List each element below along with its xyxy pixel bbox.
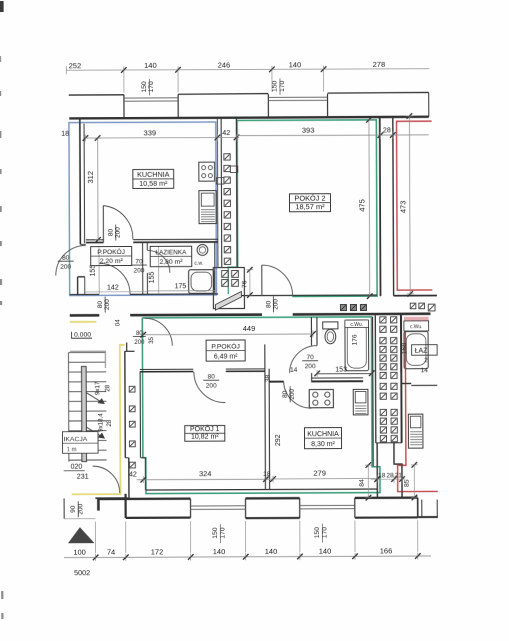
svg-text:339: 339 <box>144 128 157 137</box>
svg-text:200: 200 <box>305 363 316 370</box>
svg-text:2: 2 <box>424 357 428 364</box>
svg-text:166: 166 <box>380 546 393 555</box>
svg-text:200: 200 <box>134 267 145 274</box>
svg-text:9x17: 9x17 <box>94 381 101 395</box>
svg-text:14: 14 <box>290 367 298 374</box>
svg-text:c.Wu.: c.Wu. <box>410 324 423 330</box>
svg-text:42: 42 <box>129 472 137 479</box>
svg-text:175: 175 <box>175 283 187 290</box>
svg-text:153: 153 <box>335 367 347 374</box>
svg-text:21: 21 <box>395 472 403 479</box>
svg-text:231: 231 <box>77 471 89 480</box>
svg-text:200: 200 <box>134 340 145 346</box>
svg-text:278: 278 <box>373 60 386 69</box>
svg-text:155: 155 <box>90 265 97 277</box>
svg-text:150: 150 <box>271 80 278 92</box>
svg-text:ŁAZIENKA: ŁAZIENKA <box>155 249 187 256</box>
svg-text:10,58 m²: 10,58 m² <box>139 179 168 188</box>
svg-text:P.POKÓJ: P.POKÓJ <box>97 247 125 256</box>
svg-text:449: 449 <box>243 324 256 333</box>
svg-text:04: 04 <box>115 319 121 326</box>
svg-text:140: 140 <box>289 60 302 69</box>
svg-text:140: 140 <box>265 547 278 556</box>
svg-text:312: 312 <box>86 171 95 184</box>
svg-text:5002: 5002 <box>74 568 90 577</box>
svg-text:9x18,4: 9x18,4 <box>97 413 104 432</box>
svg-text:85: 85 <box>404 479 411 487</box>
svg-text:80: 80 <box>62 255 70 262</box>
svg-text:KUCHNIA: KUCHNIA <box>137 170 170 179</box>
svg-text:28: 28 <box>386 472 394 479</box>
svg-text:2,20 m²: 2,20 m² <box>100 258 124 265</box>
svg-text:200: 200 <box>115 227 122 238</box>
svg-text:473: 473 <box>398 201 407 214</box>
svg-text:0.000: 0.000 <box>74 331 91 338</box>
svg-text:200: 200 <box>206 383 217 390</box>
svg-text:6,49 m²: 6,49 m² <box>214 353 238 360</box>
svg-text:74: 74 <box>107 548 115 557</box>
svg-text:18: 18 <box>378 472 386 479</box>
svg-text:200: 200 <box>77 503 84 514</box>
svg-text:18: 18 <box>263 471 271 478</box>
svg-text:393: 393 <box>302 126 315 135</box>
svg-text:80: 80 <box>136 331 143 337</box>
svg-text:POKÓJ 1: POKÓJ 1 <box>190 424 220 433</box>
svg-text:10,82 m²: 10,82 m² <box>191 433 219 440</box>
svg-text:8,30 m²: 8,30 m² <box>311 441 335 448</box>
svg-text:1 m: 1 m <box>67 447 77 453</box>
svg-text:200: 200 <box>60 264 71 271</box>
svg-text:172: 172 <box>151 547 164 556</box>
svg-text:80: 80 <box>208 374 216 381</box>
svg-text:155: 155 <box>149 271 156 283</box>
svg-text:80: 80 <box>265 300 272 308</box>
svg-text:2,80 m²: 2,80 m² <box>159 259 183 266</box>
svg-text:KUCHNIA: KUCHNIA <box>307 431 339 438</box>
svg-text:292: 292 <box>275 434 282 446</box>
svg-text:80: 80 <box>282 390 289 398</box>
svg-text:70: 70 <box>307 354 315 361</box>
svg-text:140: 140 <box>319 547 332 556</box>
svg-text:142: 142 <box>107 285 119 292</box>
svg-text:c.w.: c.w. <box>194 261 203 267</box>
svg-text:100: 100 <box>73 548 86 557</box>
svg-text:324: 324 <box>199 469 212 478</box>
svg-text:14: 14 <box>421 367 429 374</box>
svg-text:200: 200 <box>272 299 279 310</box>
svg-text:80: 80 <box>107 229 114 237</box>
svg-text:28: 28 <box>383 127 391 134</box>
svg-text:38: 38 <box>265 374 272 382</box>
svg-text:200: 200 <box>104 299 111 310</box>
svg-text:279: 279 <box>313 469 326 478</box>
svg-text:P.POKÓJ: P.POKÓJ <box>211 341 240 350</box>
svg-text:76: 76 <box>241 280 248 288</box>
svg-text:90: 90 <box>70 505 77 513</box>
svg-text:28: 28 <box>104 384 111 391</box>
svg-text:140: 140 <box>213 547 226 556</box>
svg-text:176: 176 <box>352 334 359 345</box>
svg-text:168: 168 <box>401 343 408 355</box>
svg-text:c.Wu.: c.Wu. <box>350 322 363 328</box>
svg-text:28: 28 <box>106 419 113 426</box>
svg-text:18,57 m²: 18,57 m² <box>295 202 325 211</box>
svg-text:475: 475 <box>357 199 366 212</box>
svg-text:200: 200 <box>289 388 296 399</box>
svg-text:246: 246 <box>218 60 231 69</box>
svg-text:ŁAZ: ŁAZ <box>415 348 429 355</box>
svg-text:150: 150 <box>314 527 321 539</box>
svg-text:80: 80 <box>97 301 104 309</box>
svg-text:84: 84 <box>359 479 366 487</box>
svg-text:IKACJA: IKACJA <box>64 436 88 443</box>
svg-text:252: 252 <box>69 61 82 70</box>
svg-text:42: 42 <box>222 128 230 137</box>
svg-text:020: 020 <box>71 464 83 471</box>
svg-text:18: 18 <box>61 129 69 138</box>
svg-text:35: 35 <box>149 336 155 343</box>
svg-text:70: 70 <box>135 258 143 265</box>
svg-text:150: 150 <box>141 81 148 93</box>
svg-text:140: 140 <box>144 61 157 70</box>
svg-text:150: 150 <box>212 527 219 539</box>
